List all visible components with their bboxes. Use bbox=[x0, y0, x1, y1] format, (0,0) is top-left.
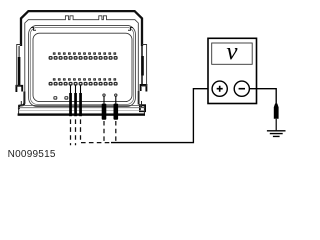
probe P2 stem bbox=[75, 85, 77, 94]
right side lower thick segment bbox=[138, 91, 140, 105]
probe P2 dashed wire bbox=[75, 119, 77, 145]
sparse row pin square 2 bbox=[65, 97, 68, 99]
wire from minus terminal to ground bbox=[249, 89, 276, 105]
voltmeter minus terminal bbox=[234, 81, 249, 96]
pin row A2 sockets bbox=[49, 57, 117, 59]
svg-text:ν: ν bbox=[226, 38, 238, 65]
minus symbol bbox=[239, 88, 245, 90]
right boot foot bbox=[140, 105, 145, 111]
sparse row pin square 1 bbox=[54, 97, 57, 99]
solid bus wire to voltmeter plus terminal bbox=[111, 89, 212, 143]
right side latch bar bbox=[141, 56, 144, 76]
probe P5 dashed wire bbox=[115, 121, 117, 143]
probe P5 stem bbox=[115, 97, 117, 105]
pin row B1 squares bbox=[53, 78, 116, 80]
voltmeter plus terminal bbox=[212, 81, 227, 96]
left side lower thick segment bbox=[23, 92, 25, 104]
left side bulge line bbox=[17, 45, 21, 87]
left boot step bbox=[19, 103, 25, 110]
flange line 3 bbox=[19, 110, 145, 112]
shield rim step top-left bbox=[31, 28, 36, 31]
left side latch bar bbox=[18, 57, 21, 87]
probe P1 stem bbox=[70, 85, 72, 94]
probe P4 dashed wire bbox=[103, 121, 105, 143]
shield outer rounded rect bbox=[29, 25, 136, 106]
probe P2 body bbox=[74, 93, 77, 116]
probe P3 stem bbox=[80, 85, 82, 94]
ground symbol bbox=[267, 131, 286, 137]
probe P3 dashed wire with corner to bus bbox=[81, 119, 112, 142]
figure label N0099515 bbox=[8, 149, 56, 160]
left side latch bar upper thin part bbox=[18, 46, 20, 57]
left side latch bottom hook bbox=[16, 86, 22, 92]
sparse row pin circle P5 bbox=[115, 94, 117, 96]
probe P3 body bbox=[79, 93, 82, 116]
shield inner rounded rect bbox=[30, 27, 133, 104]
plus symbol bbox=[217, 86, 223, 92]
probe P5 body bbox=[114, 104, 119, 120]
inner octagon outline with top tabs bbox=[25, 16, 139, 104]
flange outline bbox=[19, 101, 145, 114]
flange line 1 bbox=[21, 104, 141, 106]
ground probe body bbox=[274, 104, 279, 119]
connector outer shell bbox=[21, 11, 142, 46]
probe P4 stem bbox=[103, 97, 105, 105]
flange line 2 bbox=[19, 107, 145, 109]
probe P1 dashed wire bbox=[70, 119, 72, 145]
voltmeter display screen bbox=[212, 43, 253, 64]
flange bottom thick bar bbox=[18, 113, 145, 115]
ground lead wire bbox=[275, 119, 277, 131]
probe P1 body bbox=[69, 93, 72, 116]
sparse row pin circle P4 bbox=[103, 94, 105, 96]
pin box rounded rect bbox=[33, 33, 132, 101]
right side bulge line bbox=[142, 45, 147, 87]
connector outer shell lower sides bbox=[141, 44, 143, 86]
voltmeter U1 box bbox=[208, 38, 257, 103]
shield rim step top-right bbox=[128, 28, 133, 31]
pin row B2 sockets bbox=[49, 82, 117, 84]
probe P4 body bbox=[102, 104, 107, 120]
pin row A1 squares bbox=[53, 52, 116, 54]
right side latch bottom hook bbox=[141, 85, 147, 92]
